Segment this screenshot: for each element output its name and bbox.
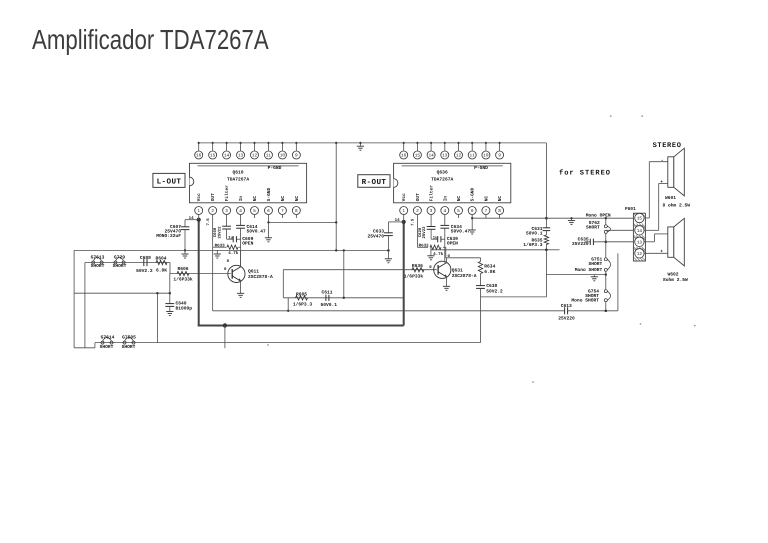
- svg-text:25V22: 25V22: [218, 226, 223, 239]
- svg-text:SHORT: SHORT: [113, 263, 127, 269]
- svg-text:50V0.47: 50V0.47: [451, 229, 471, 235]
- svg-text:0: 0: [448, 254, 451, 259]
- svg-text:1/6P3.3: 1/6P3.3: [293, 301, 313, 307]
- svg-text:In: In: [443, 196, 448, 202]
- svg-text:2: 2: [211, 209, 214, 214]
- svg-text:Q611: Q611: [248, 268, 259, 274]
- svg-text:B1000p: B1000p: [176, 305, 193, 311]
- svg-text:1/6P3.3: 1/6P3.3: [523, 242, 543, 248]
- svg-text:G7505: G7505: [122, 335, 136, 341]
- svg-text:1/6P33k: 1/6P33k: [173, 277, 193, 283]
- svg-text:NC: NC: [456, 196, 462, 202]
- svg-text:G7613: G7613: [91, 254, 105, 260]
- svg-text:50V0.1: 50V0.1: [321, 302, 338, 308]
- svg-text:SHORT: SHORT: [100, 344, 114, 350]
- svg-text:Q610: Q610: [233, 169, 244, 175]
- svg-text:R636: R636: [412, 263, 423, 269]
- svg-text:3: 3: [225, 209, 228, 214]
- svg-text:25V220: 25V220: [572, 241, 589, 247]
- svg-text:TDA7267A: TDA7267A: [431, 177, 453, 183]
- svg-text:2SC2878-A: 2SC2878-A: [452, 273, 477, 279]
- svg-text:16: 16: [196, 154, 202, 159]
- svg-text:10: 10: [280, 154, 286, 159]
- svg-text:11: 11: [470, 154, 476, 159]
- svg-text:0: 0: [429, 265, 432, 270]
- svg-text:1: 1: [402, 209, 405, 214]
- svg-text:0: 0: [227, 259, 230, 264]
- svg-text:C688: C688: [140, 255, 151, 261]
- svg-text:9: 9: [295, 154, 298, 159]
- svg-text:+: +: [660, 180, 663, 185]
- svg-text:OUT: OUT: [210, 193, 216, 201]
- svg-text:16: 16: [401, 154, 407, 159]
- svg-text:G7614: G7614: [101, 335, 115, 341]
- svg-text:13: 13: [238, 154, 244, 159]
- svg-text:W601: W601: [665, 195, 676, 201]
- svg-text:12: 12: [637, 252, 643, 257]
- svg-text:In: In: [239, 196, 244, 202]
- svg-text:1u: 1u: [228, 236, 233, 241]
- svg-text:12: 12: [252, 154, 258, 159]
- svg-text:13: 13: [637, 240, 643, 245]
- svg-text:TDA7267A: TDA7267A: [227, 177, 249, 183]
- svg-text:6.8K: 6.8K: [484, 269, 495, 275]
- svg-text:Q636: Q636: [437, 169, 448, 175]
- svg-text:50V2.2: 50V2.2: [136, 268, 153, 274]
- svg-text:Mono SHORT: Mono SHORT: [575, 267, 603, 273]
- svg-text:R633: R633: [215, 243, 226, 248]
- svg-text:Mono OPEN: Mono OPEN: [586, 213, 611, 219]
- svg-text:C628: C628: [418, 227, 423, 237]
- svg-text:14: 14: [189, 216, 195, 221]
- svg-text:STEREO: STEREO: [653, 142, 682, 150]
- svg-text:R632: R632: [419, 244, 430, 249]
- svg-text:3: 3: [430, 209, 433, 214]
- svg-text:1/6P33k: 1/6P33k: [404, 274, 424, 280]
- svg-text:-: -: [661, 158, 664, 164]
- svg-text:9: 9: [498, 154, 501, 159]
- svg-text:15: 15: [210, 154, 216, 159]
- svg-text:S-GND: S-GND: [266, 187, 272, 201]
- svg-text:W602: W602: [668, 272, 679, 278]
- svg-text:8 ohm 2.5W: 8 ohm 2.5W: [663, 203, 691, 209]
- svg-text:2: 2: [416, 209, 419, 214]
- svg-text:Q631: Q631: [452, 268, 463, 274]
- svg-text:C608: C608: [213, 227, 218, 237]
- svg-text:14: 14: [637, 229, 643, 234]
- svg-text:NC: NC: [294, 196, 300, 202]
- svg-text:50V2.2: 50V2.2: [486, 289, 503, 295]
- svg-text:11: 11: [266, 154, 272, 159]
- svg-text:P-GND: P-GND: [268, 165, 282, 171]
- svg-text:C611: C611: [322, 289, 333, 295]
- svg-text:+: +: [660, 250, 663, 255]
- svg-text:NC: NC: [280, 196, 286, 202]
- svg-text:25V220: 25V220: [558, 316, 575, 322]
- svg-text:R606: R606: [177, 266, 188, 272]
- svg-text:25V22: 25V22: [422, 226, 427, 239]
- svg-text:SHORT: SHORT: [589, 261, 603, 267]
- svg-text:6: 6: [267, 209, 270, 214]
- svg-text:8: 8: [498, 209, 501, 214]
- svg-text:15: 15: [637, 217, 643, 222]
- svg-text:R604: R604: [155, 256, 166, 262]
- svg-text:Filter: Filter: [429, 185, 435, 202]
- svg-text:10: 10: [483, 154, 489, 159]
- svg-text:4.7k: 4.7k: [228, 250, 239, 256]
- svg-text:13: 13: [442, 154, 448, 159]
- svg-text:R-OUT: R-OUT: [362, 178, 387, 187]
- svg-text:15: 15: [415, 154, 421, 159]
- svg-text:1: 1: [197, 209, 200, 214]
- svg-text:50V0.47: 50V0.47: [247, 229, 267, 235]
- svg-text:8: 8: [295, 209, 298, 214]
- svg-text:C613: C613: [561, 303, 572, 309]
- svg-text:50V0.1: 50V0.1: [526, 231, 543, 237]
- svg-text:5: 5: [253, 209, 256, 214]
- svg-text:0: 0: [224, 267, 227, 272]
- svg-text:SHORT: SHORT: [91, 263, 105, 269]
- svg-text:NC: NC: [483, 196, 489, 202]
- svg-text:SHORT: SHORT: [586, 225, 600, 231]
- svg-text:4: 4: [443, 209, 446, 214]
- svg-text:14: 14: [395, 218, 401, 223]
- svg-text:OPEN: OPEN: [242, 240, 253, 246]
- svg-text:S-GND: S-GND: [470, 187, 476, 201]
- svg-text:6.8K: 6.8K: [156, 268, 167, 274]
- svg-text:SHORT: SHORT: [122, 344, 136, 350]
- svg-text:G729: G729: [114, 254, 125, 260]
- svg-text:6: 6: [471, 209, 474, 214]
- svg-text:Filter: Filter: [224, 185, 230, 202]
- svg-text:Mono SHORT: Mono SHORT: [571, 298, 599, 304]
- svg-text:25V470: 25V470: [367, 233, 384, 239]
- svg-text:MONO:22uF: MONO:22uF: [156, 233, 181, 239]
- svg-text:12: 12: [456, 154, 462, 159]
- svg-text:4.7k: 4.7k: [433, 251, 444, 257]
- svg-text:7: 7: [281, 209, 284, 214]
- svg-text:14: 14: [428, 154, 434, 159]
- svg-text:Vcc: Vcc: [197, 193, 202, 201]
- svg-text:L-OUT: L-OUT: [157, 178, 182, 187]
- svg-text:for STEREO: for STEREO: [559, 169, 611, 178]
- svg-text:P-GND: P-GND: [474, 165, 488, 171]
- svg-text:5: 5: [457, 209, 460, 214]
- svg-text:7.5: 7.5: [411, 218, 416, 226]
- svg-text:P801: P801: [625, 206, 636, 212]
- svg-text:14: 14: [224, 154, 230, 159]
- svg-text:4: 4: [239, 209, 242, 214]
- svg-text:Vcc: Vcc: [402, 193, 407, 201]
- svg-text:7.5: 7.5: [206, 218, 211, 226]
- svg-text:7: 7: [485, 209, 488, 214]
- svg-text:1u: 1u: [433, 236, 438, 241]
- svg-text:C633: C633: [373, 228, 384, 234]
- svg-text:OPEN: OPEN: [447, 240, 458, 246]
- svg-text:R605: R605: [296, 291, 307, 297]
- svg-text:R634: R634: [484, 264, 495, 270]
- svg-text:2SC2878-A: 2SC2878-A: [248, 274, 273, 280]
- svg-text:C638: C638: [486, 283, 497, 289]
- svg-text:OUT: OUT: [415, 193, 421, 201]
- svg-text:8ohm 2.5W: 8ohm 2.5W: [663, 277, 688, 283]
- svg-text:NC: NC: [497, 196, 503, 202]
- svg-text:NC: NC: [252, 196, 258, 202]
